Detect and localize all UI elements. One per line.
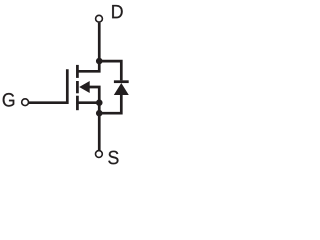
terminal circle G <box>22 99 29 106</box>
wire: source stub from channel to bus <box>76 101 99 104</box>
wire: drain lead from terminal D down and drain stub to channel <box>77 23 99 72</box>
transistor Q1 channel bottom segment <box>76 96 79 111</box>
label D <box>112 5 122 18</box>
label G <box>3 93 15 107</box>
wire: diode top branch from drain junction <box>99 61 121 80</box>
terminal circle D <box>96 15 103 22</box>
diode D1 cathode bar <box>114 80 129 83</box>
transistor Q1 channel top segment <box>76 65 79 78</box>
wire: diode bottom branch to source bus <box>99 94 121 113</box>
junction dot at drain/diode <box>96 58 103 65</box>
transistor Q1 body arrow <box>79 81 90 93</box>
junction dot at source stub <box>96 99 103 106</box>
transistor Q1 channel middle segment <box>76 81 79 93</box>
label S <box>108 151 118 165</box>
wire: gate lead and gate plate <box>29 69 68 103</box>
junction dot at source/diode <box>96 110 103 117</box>
wire: body arrow branch to source bus down to terminal S <box>89 87 99 150</box>
terminal circle S <box>96 151 103 158</box>
diode D1 anode triangle <box>114 83 129 95</box>
